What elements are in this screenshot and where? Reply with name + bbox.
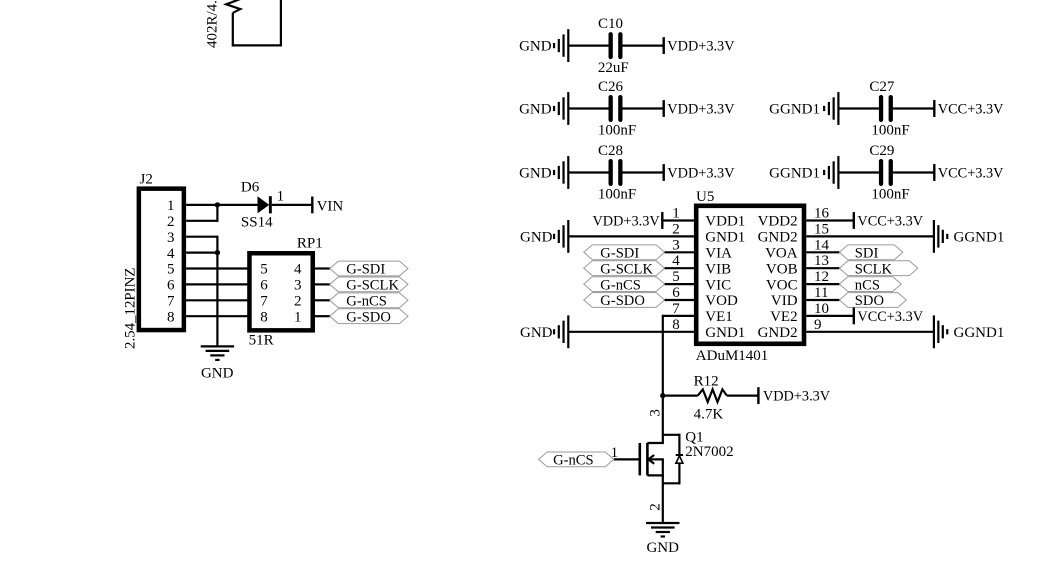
svg-text:nCS: nCS [855, 277, 880, 293]
svg-text:7: 7 [672, 301, 680, 317]
node junction pins 1-2 [215, 202, 220, 207]
svg-text:1: 1 [277, 189, 285, 205]
svg-text:3: 3 [167, 230, 175, 246]
svg-text:GND1: GND1 [705, 325, 745, 341]
wire RP1 to flag [315, 315, 330, 317]
net flag nCS [839, 277, 901, 294]
power flag VCC+3.3V [934, 164, 1004, 181]
wire pin15 [806, 235, 934, 237]
wire [568, 107, 608, 109]
net flag G-SDO at U5 [584, 293, 665, 310]
svg-text:15: 15 [814, 221, 829, 237]
svg-text:J2: J2 [140, 172, 153, 188]
svg-text:GGND1: GGND1 [769, 102, 820, 118]
ground (GGND1) at C29 [769, 156, 838, 189]
svg-text:GND2: GND2 [758, 230, 798, 246]
svg-text:GGND1: GGND1 [769, 166, 820, 182]
wire source to ground [662, 483, 664, 523]
svg-text:11: 11 [814, 285, 828, 301]
svg-text:3: 3 [672, 237, 680, 253]
svg-text:10: 10 [814, 301, 829, 317]
svg-text:4: 4 [294, 262, 302, 278]
svg-text:VOB: VOB [766, 261, 798, 277]
svg-text:12: 12 [814, 269, 829, 285]
net flag G-SCLK [330, 277, 408, 294]
wire junction to R12 [663, 395, 698, 397]
svg-text:16: 16 [814, 206, 830, 222]
net flag G-SDI [330, 261, 408, 278]
svg-text:G-nCS: G-nCS [553, 453, 594, 469]
ground (GND) at C26 [519, 92, 568, 125]
capacitor C29 [869, 143, 909, 203]
wire J2 pin5 to RP1 [186, 267, 249, 269]
wire drain [662, 396, 664, 443]
svg-text:VDD1: VDD1 [705, 214, 745, 230]
svg-text:GND2: GND2 [758, 325, 798, 341]
wire pin4 [186, 252, 217, 254]
wire pin8 [568, 331, 694, 333]
svg-text:SS14: SS14 [241, 214, 273, 230]
diode D6 SS14 [241, 180, 273, 231]
svg-text:GND: GND [646, 540, 679, 556]
svg-text:2.54_12PINZ: 2.54_12PINZ [123, 268, 139, 349]
wire [665, 251, 694, 253]
wire [665, 299, 694, 301]
svg-text:100nF: 100nF [598, 123, 636, 139]
wire pin2 [568, 235, 694, 237]
wire pin1 [662, 219, 694, 221]
power flag VCC+3.3V [934, 100, 1004, 117]
svg-text:VE1: VE1 [705, 309, 733, 325]
pin 3 label (drain) [648, 409, 664, 417]
svg-text:GND: GND [201, 366, 234, 382]
svg-text:G-SCLK: G-SCLK [346, 278, 399, 294]
svg-text:9: 9 [814, 317, 822, 333]
svg-text:4: 4 [167, 246, 175, 262]
power flag VIN [312, 197, 343, 215]
ground GGND1 at pin9 [934, 315, 1004, 348]
wire gate [614, 458, 639, 460]
wire RP1 to flag [315, 267, 330, 269]
wire [623, 171, 664, 173]
wire [623, 107, 664, 109]
ground GND below Q1 [646, 523, 679, 556]
resistor fragment (vertical, value 402R, top cut off) [226, 0, 240, 13]
op-amp U5 ADuM1401 digital isolator [672, 189, 829, 364]
net flag G-SDI at U5 [584, 245, 665, 262]
power flag VDD+3.3V at pin1 [592, 212, 662, 229]
wire RP1 to flag [315, 283, 330, 285]
wire pin3 to ground [186, 236, 217, 347]
svg-text:5: 5 [260, 262, 268, 278]
wire [568, 171, 608, 173]
wire R12 to VDD [727, 395, 759, 397]
svg-text:6: 6 [167, 278, 175, 294]
svg-text:1: 1 [167, 198, 175, 214]
svg-text:3: 3 [294, 278, 302, 294]
svg-text:SDI: SDI [855, 246, 879, 262]
svg-text:VCC+3.3V: VCC+3.3V [938, 102, 1004, 118]
power flag VDD+3.3V [664, 164, 736, 181]
wire loop from resistor [233, 0, 281, 45]
svg-text:8: 8 [260, 309, 268, 325]
svg-text:8: 8 [167, 309, 175, 325]
net flag G-nCS [330, 293, 408, 310]
node junction drain/R12 [660, 393, 665, 398]
net flag G-SCLK at U5 [584, 261, 665, 278]
pin 2 label (source) [648, 503, 664, 511]
svg-text:2N7002: 2N7002 [685, 444, 733, 460]
ground GND at pin2 [520, 220, 568, 253]
svg-text:VDD+3.3V: VDD+3.3V [667, 102, 735, 118]
svg-text:G-SCLK: G-SCLK [600, 261, 653, 277]
power flag VCC+3.3V at pin16 [854, 212, 924, 229]
svg-text:C28: C28 [598, 143, 623, 159]
svg-text:VDD+3.3V: VDD+3.3V [763, 389, 831, 405]
capacitor C28 [598, 143, 636, 203]
svg-text:RP1: RP1 [297, 235, 323, 251]
ground GGND1 at pin15 [934, 220, 1004, 253]
svg-text:6: 6 [260, 278, 268, 294]
wire pin1 to diode [186, 204, 258, 206]
svg-text:G-nCS: G-nCS [346, 294, 387, 310]
capacitor C27 [869, 79, 909, 139]
net flag G-nCS at U5 [584, 277, 665, 294]
svg-text:G-SDO: G-SDO [346, 309, 391, 325]
svg-text:GND1: GND1 [705, 230, 745, 246]
svg-text:VID: VID [771, 293, 798, 309]
svg-text:G-nCS: G-nCS [600, 277, 641, 293]
net flag G-SDO [330, 309, 408, 326]
svg-text:VIC: VIC [705, 277, 731, 293]
svg-text:2: 2 [167, 214, 175, 230]
power flag VDD+3.3V at R12 [758, 387, 830, 404]
svg-text:SCLK: SCLK [855, 261, 893, 277]
wire J2 pin8 to RP1 [186, 315, 249, 317]
ground GND below J2 [201, 346, 234, 381]
svg-text:100nF: 100nF [598, 187, 636, 203]
svg-text:100nF: 100nF [871, 123, 909, 139]
svg-text:SDO: SDO [855, 293, 884, 309]
svg-text:5: 5 [672, 269, 680, 285]
svg-text:VIN: VIN [317, 198, 344, 214]
wire [893, 107, 934, 109]
ground (GND) at C28 [519, 156, 568, 189]
svg-text:51R: 51R [249, 333, 274, 349]
svg-text:VDD+3.3V: VDD+3.3V [667, 166, 735, 182]
wire [665, 283, 694, 285]
svg-text:GND: GND [519, 39, 552, 55]
ground (GND) at C10 [519, 29, 568, 62]
svg-text:C10: C10 [598, 16, 623, 32]
capacitor C10 [598, 16, 629, 76]
svg-text:1: 1 [672, 206, 680, 222]
svg-text:GND: GND [519, 166, 552, 182]
svg-text:2: 2 [294, 294, 302, 310]
wire [623, 44, 664, 46]
node junction pin4-gnd [215, 250, 220, 255]
wire [806, 299, 839, 301]
net flag G-nCS at Q1 gate [539, 452, 614, 469]
wire J2 pin6 to RP1 [186, 283, 249, 285]
svg-text:VDD+3.3V: VDD+3.3V [667, 39, 735, 55]
svg-text:C29: C29 [869, 143, 894, 159]
wire [665, 267, 694, 269]
power flag VDD+3.3V [664, 37, 736, 54]
wire pin16 [806, 219, 854, 221]
ground (GGND1) at C27 [769, 92, 838, 125]
svg-text:VIA: VIA [705, 246, 732, 262]
svg-text:GGND1: GGND1 [954, 325, 1005, 341]
wire [806, 267, 839, 269]
svg-text:6: 6 [672, 285, 680, 301]
svg-text:8: 8 [672, 317, 680, 333]
wire pin10 [806, 315, 854, 317]
svg-text:R12: R12 [694, 374, 719, 390]
ground GND at pin8 [520, 315, 568, 348]
svg-text:13: 13 [814, 253, 829, 269]
transistor Q1 2N7002 (N-MOSFET) [640, 430, 734, 485]
svg-text:14: 14 [814, 237, 830, 253]
wire [838, 171, 879, 173]
svg-text:VE2: VE2 [770, 309, 798, 325]
svg-text:G-SDI: G-SDI [600, 246, 639, 262]
svg-text:4.7K: 4.7K [694, 407, 724, 423]
net flag SDO [839, 293, 906, 310]
svg-text:VIB: VIB [705, 261, 731, 277]
svg-text:VCC+3.3V: VCC+3.3V [857, 214, 923, 230]
svg-text:VDD+3.3V: VDD+3.3V [592, 214, 660, 230]
svg-text:C26: C26 [598, 79, 624, 95]
svg-text:5: 5 [167, 262, 175, 278]
svg-text:G-SDI: G-SDI [346, 262, 385, 278]
svg-text:U5: U5 [696, 189, 714, 205]
svg-text:C27: C27 [869, 79, 895, 95]
svg-text:VDD2: VDD2 [758, 214, 798, 230]
power flag VDD+3.3V [664, 100, 736, 117]
wire RP1 to flag [315, 299, 330, 301]
svg-text:2: 2 [672, 221, 680, 237]
wire [568, 44, 608, 46]
svg-text:D6: D6 [241, 180, 260, 196]
svg-text:ADuM1401: ADuM1401 [696, 348, 769, 364]
wire pin2 [186, 205, 217, 222]
wire [838, 107, 879, 109]
svg-text:GND: GND [520, 230, 553, 246]
wire [806, 251, 839, 253]
svg-text:100nF: 100nF [871, 187, 909, 203]
wire diode to VIN [272, 204, 313, 206]
svg-text:4: 4 [672, 253, 680, 269]
svg-text:3: 3 [648, 409, 664, 417]
resistor R12 4.7K [694, 374, 727, 423]
svg-text:VOA: VOA [765, 246, 798, 262]
svg-text:2: 2 [648, 503, 664, 511]
wire J2 pin7 to RP1 [186, 299, 249, 301]
connector J2 (2.54_12PINZ) [123, 172, 184, 350]
label 402R/4. [205, 0, 221, 48]
wire [893, 171, 934, 173]
svg-text:7: 7 [167, 294, 175, 310]
wire pin9 [806, 331, 934, 333]
svg-text:GND: GND [519, 102, 552, 118]
svg-text:1: 1 [294, 309, 302, 325]
svg-text:GND: GND [520, 325, 553, 341]
wire pin7 (VE1) down to R12/Q1 [663, 315, 694, 396]
svg-text:7: 7 [260, 294, 268, 310]
svg-text:VCC+3.3V: VCC+3.3V [857, 309, 923, 325]
net flag SCLK [839, 261, 917, 278]
net flag SDI [839, 245, 902, 262]
svg-text:GGND1: GGND1 [954, 230, 1005, 246]
capacitor C26 [598, 79, 636, 139]
resistor pack RP1 (51R) [249, 235, 323, 348]
svg-text:22uF: 22uF [598, 60, 629, 76]
svg-text:VCC+3.3V: VCC+3.3V [938, 166, 1004, 182]
wire [806, 283, 839, 285]
svg-text:G-SDO: G-SDO [600, 293, 645, 309]
svg-text:402R/4.: 402R/4. [205, 0, 221, 48]
power flag VCC+3.3V at pin10 [854, 308, 924, 325]
svg-text:VOD: VOD [705, 293, 738, 309]
svg-text:VOC: VOC [766, 277, 798, 293]
